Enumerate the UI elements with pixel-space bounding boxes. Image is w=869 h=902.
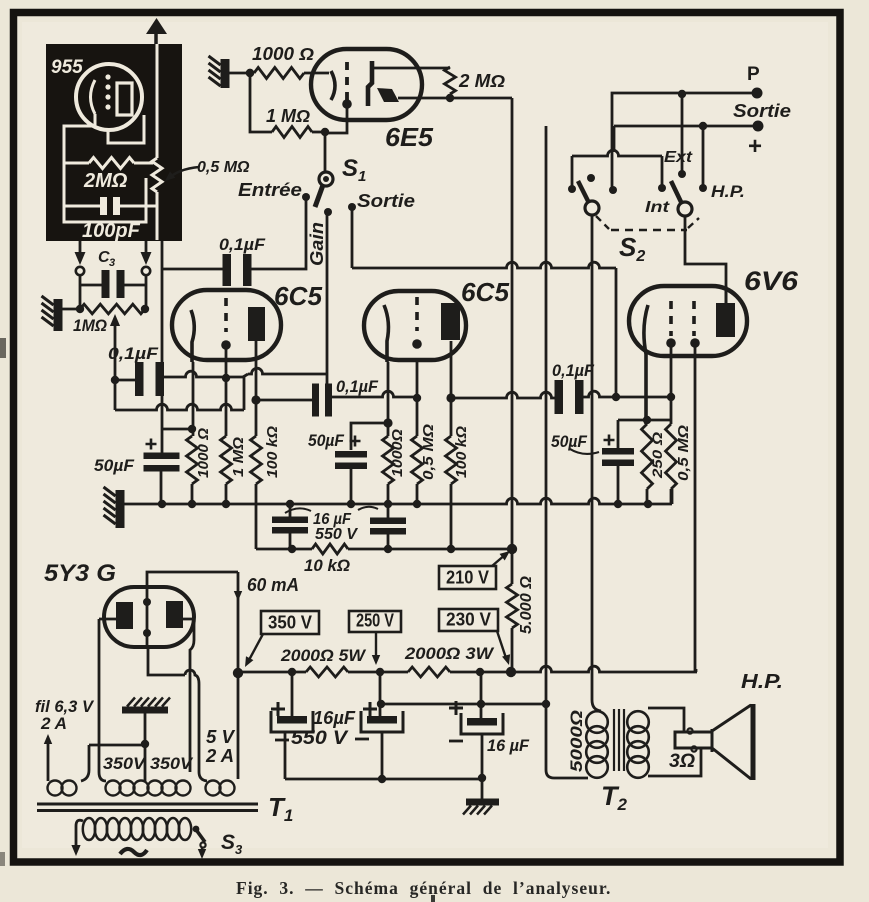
svg-text:2000Ω 5W: 2000Ω 5W bbox=[280, 646, 367, 665]
svg-text:550 V: 550 V bbox=[315, 526, 358, 543]
svg-text:H.P.: H.P. bbox=[711, 182, 745, 201]
svg-text:P: P bbox=[747, 64, 760, 85]
svg-text:3Ω: 3Ω bbox=[669, 751, 695, 772]
svg-text:60 mA: 60 mA bbox=[247, 575, 299, 595]
svg-text:230 V: 230 V bbox=[446, 610, 491, 630]
svg-text:Sortie: Sortie bbox=[733, 101, 791, 121]
svg-text:5000Ω: 5000Ω bbox=[567, 710, 586, 772]
svg-text:1 MΩ: 1 MΩ bbox=[266, 106, 310, 126]
svg-text:Sortie: Sortie bbox=[357, 191, 415, 211]
svg-text:0,1µF: 0,1µF bbox=[219, 235, 266, 254]
svg-text:10 kΩ: 10 kΩ bbox=[304, 556, 350, 575]
svg-text:250 V: 250 V bbox=[356, 611, 394, 631]
svg-text:0,1µF: 0,1µF bbox=[108, 344, 159, 363]
svg-text:0,1µF: 0,1µF bbox=[336, 377, 379, 396]
svg-text:H.P.: H.P. bbox=[741, 671, 783, 693]
svg-text:2 A: 2 A bbox=[205, 746, 234, 766]
svg-text:1MΩ: 1MΩ bbox=[73, 316, 107, 335]
svg-text:100 kΩ: 100 kΩ bbox=[264, 426, 281, 478]
svg-text:1000 Ω: 1000 Ω bbox=[252, 44, 314, 64]
svg-text:50µF: 50µF bbox=[308, 431, 345, 450]
svg-text:210 V: 210 V bbox=[446, 568, 489, 588]
svg-text:0,5 MΩ: 0,5 MΩ bbox=[420, 424, 437, 480]
svg-text:2000Ω 3W: 2000Ω 3W bbox=[404, 644, 495, 663]
svg-text:5 V: 5 V bbox=[206, 727, 236, 747]
svg-text:0,1µF: 0,1µF bbox=[552, 361, 595, 380]
svg-text:Entrée: Entrée bbox=[238, 180, 302, 200]
svg-text:1 MΩ: 1 MΩ bbox=[230, 437, 247, 477]
svg-text:1000Ω: 1000Ω bbox=[389, 429, 406, 477]
svg-text:350V: 350V bbox=[150, 754, 194, 773]
svg-text:350V: 350V bbox=[103, 754, 147, 773]
svg-text:955: 955 bbox=[51, 57, 83, 78]
svg-text:16 µF: 16 µF bbox=[487, 736, 530, 755]
svg-text:Gain: Gain bbox=[307, 222, 327, 266]
svg-text:16µF: 16µF bbox=[313, 708, 356, 728]
svg-text:6C5: 6C5 bbox=[274, 281, 323, 311]
svg-text:1000 Ω: 1000 Ω bbox=[195, 428, 212, 478]
svg-text:100pF: 100pF bbox=[82, 220, 141, 242]
svg-text:Int: Int bbox=[645, 199, 670, 216]
svg-text:6C5: 6C5 bbox=[461, 277, 510, 307]
svg-text:0,5 MΩ: 0,5 MΩ bbox=[197, 159, 250, 176]
svg-text:100 kΩ: 100 kΩ bbox=[453, 426, 470, 478]
svg-text:Fig. 3. — Schéma général: Fig. 3. — Schéma général de l’analyseur. bbox=[236, 878, 611, 898]
svg-text:6V6: 6V6 bbox=[744, 266, 799, 296]
svg-text:2MΩ: 2MΩ bbox=[83, 170, 128, 192]
svg-text:2 MΩ: 2 MΩ bbox=[458, 71, 505, 91]
svg-text:Ext: Ext bbox=[664, 149, 693, 166]
svg-text:2 A: 2 A bbox=[40, 714, 67, 733]
svg-text:5Y3 G: 5Y3 G bbox=[44, 560, 116, 587]
svg-text:250 Ω: 250 Ω bbox=[649, 432, 665, 479]
svg-text:350 V: 350 V bbox=[268, 613, 312, 633]
svg-text:50µF: 50µF bbox=[551, 432, 588, 451]
svg-text:3: 3 bbox=[109, 257, 115, 269]
svg-text:0,5 MΩ: 0,5 MΩ bbox=[675, 425, 692, 481]
svg-text:50µF: 50µF bbox=[94, 456, 135, 475]
svg-text:6E5: 6E5 bbox=[385, 122, 434, 152]
svg-text:550 V: 550 V bbox=[291, 728, 348, 749]
svg-text:5.000 Ω: 5.000 Ω bbox=[518, 575, 535, 634]
svg-text:+: + bbox=[748, 133, 762, 160]
